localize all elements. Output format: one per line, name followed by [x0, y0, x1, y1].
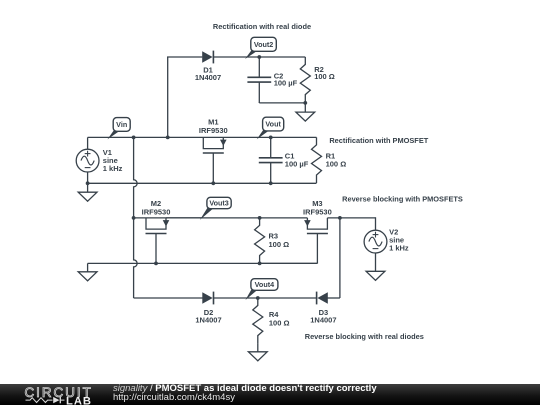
capacitor C1 [270, 137, 272, 157]
wire rail2 ground to M3 gate [88, 262, 318, 264]
ground under V1 [78, 192, 97, 201]
svg-text:100 Ω: 100 Ω [326, 159, 347, 168]
wire rail2 ground stem [87, 263, 89, 271]
wire M3 gate corner to rail2 [316, 262, 318, 265]
svg-text:100 µF: 100 µF [285, 159, 309, 168]
svg-text:LAB: LAB [66, 395, 92, 405]
node V2 branch junction dot [338, 216, 342, 220]
node Vin branch dot [132, 136, 136, 140]
svg-text:1N4007: 1N4007 [195, 73, 221, 82]
transistor M3 [307, 218, 327, 229]
wire V2 top lead [375, 217, 377, 230]
wire top row: D1 cathode to R2 top [214, 56, 305, 58]
svg-text:1 kHz: 1 kHz [103, 164, 123, 173]
diode D2 [202, 292, 212, 304]
node R3 top junction dot [258, 216, 262, 220]
ground on rail2 [78, 272, 97, 281]
svg-text:Reverse blocking with PMOSFETS: Reverse blocking with PMOSFETS [342, 194, 463, 203]
svg-text:1N4007: 1N4007 [195, 316, 221, 325]
wire R2 bottom to ground stem [304, 103, 306, 112]
node M2 source branch dot [132, 216, 136, 220]
node Vout/C1 junction dot [269, 136, 273, 140]
svg-text:100 Ω: 100 Ω [269, 240, 290, 249]
svg-text:Vout2: Vout2 [254, 40, 273, 49]
CircuitLab logo [0, 384, 110, 405]
svg-text:Reverse blocking with real dio: Reverse blocking with real diodes [305, 332, 424, 341]
node V1-/rail junction dot [86, 181, 90, 185]
voltage source V2 [364, 230, 387, 253]
svg-text:100 µF: 100 µF [274, 79, 298, 88]
node Vout4/R4 junction dot [256, 296, 260, 300]
node riser junction dot [166, 136, 170, 140]
svg-text:Vout4: Vout4 [255, 280, 274, 289]
svg-text:IRF9530: IRF9530 [303, 208, 332, 217]
wire M2 drain to R3 top [166, 217, 260, 219]
svg-text:IRF9530: IRF9530 [142, 208, 171, 217]
ground under R2 [296, 112, 315, 121]
wire riser from Vin rail to diode row [167, 57, 169, 137]
resistor R4 [253, 298, 263, 344]
wire R4 bottom to ground [257, 344, 259, 352]
svg-text:1 kHz: 1 kHz [389, 243, 409, 252]
flag Vout4 [245, 290, 258, 301]
wire V2 minus to ground [375, 253, 377, 271]
wire M3 drain to V2 branch [327, 217, 375, 219]
svg-text:IRF9530: IRF9530 [199, 126, 228, 135]
flag Vout [257, 130, 270, 139]
node M1 gate rail dot [211, 181, 215, 185]
flag Vout3 [200, 208, 214, 220]
voltage source V1 [87, 137, 89, 149]
svg-text:Rectification with real diode: Rectification with real diode [213, 22, 311, 31]
node M2 gate rail dot [154, 262, 158, 266]
transistor M1 [203, 137, 223, 148]
transistor M2 [146, 218, 166, 229]
wire D2 row left [134, 297, 205, 299]
resistor R2 [300, 57, 310, 103]
wire Vin rail [88, 136, 317, 138]
footer text [113, 384, 377, 403]
node R3 bottom rail dot [258, 262, 262, 266]
node R2 bottom junction dot [303, 101, 307, 105]
wire V1 minus lead [87, 172, 89, 192]
resistor R3 [255, 218, 265, 264]
ground under R4 [248, 352, 267, 361]
capacitor C2 [258, 57, 260, 77]
svg-text:100 Ω: 100 Ω [314, 72, 335, 81]
wire top row: riser corner to D1 anode [167, 56, 202, 58]
svg-text:Rectification with PMOSFET: Rectification with PMOSFET [329, 136, 428, 145]
node Vout2 junction dot [257, 55, 261, 59]
node C1 bottom rail dot [269, 181, 273, 185]
wire Vin branch to M2 [134, 217, 204, 219]
diode D1 [202, 51, 212, 63]
wire rail1 V1- to R1 bottom [88, 182, 317, 184]
wire bottom of C2 to R2 bottom [258, 101, 260, 104]
svg-text:100 Ω: 100 Ω [269, 318, 290, 327]
flag Vin [107, 131, 120, 140]
svg-text:Vout3: Vout3 [209, 199, 228, 208]
svg-text:1N4007: 1N4007 [310, 316, 336, 325]
resistor R1 [312, 137, 322, 183]
svg-text:M1: M1 [208, 117, 218, 126]
flag Vout2 [245, 51, 258, 60]
wire D2 cathode to D3 cathode [214, 297, 316, 299]
diode D3 [317, 292, 327, 304]
wire R3 top to M3 [260, 217, 308, 219]
wire Vin branch down with hops [134, 137, 138, 298]
svg-text:Vout: Vout [265, 120, 281, 129]
svg-text:Vin: Vin [116, 120, 127, 129]
wire V2 branch down to D3 row [339, 218, 341, 298]
ground under V2 [366, 271, 385, 280]
